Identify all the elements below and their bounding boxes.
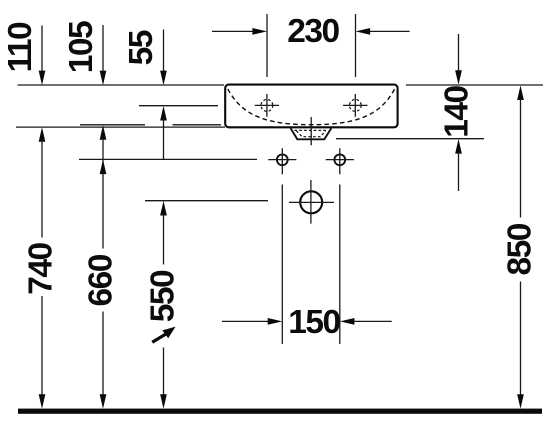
dimension 550 up arrow [160,201,167,216]
siphon cover trapezoid [291,128,332,139]
dimension 105 down arrow [100,71,107,86]
dimension 740 line lower part [41,296,43,396]
dimension 740 line upper part [41,140,43,238]
svg-text:150: 150 [288,304,340,341]
dimension 105/660 shared line [102,139,104,249]
left faucet hole dashed circle [261,100,273,112]
dimension 150 right arrow line [353,320,392,322]
dimension 230 left arrow line [212,30,254,32]
washbasin body outline [225,85,397,128]
right faucet hole dashed circle [349,100,361,112]
660-level reference line (mounting holes) [79,158,257,160]
left mounting hole crosshair [268,148,296,174]
svg-text:550: 550 [145,270,182,322]
dimension 740 up arrow [39,127,46,142]
140-level reference line [336,138,484,140]
dimension 140 up arrow [455,139,462,154]
rim reference line left segment [18,84,225,86]
dimension 55 lower tail [163,119,165,159]
dimension 55 down arrow [160,71,167,86]
dimension 850 line upper part [520,99,522,218]
left faucet hole crosshair [255,94,279,117]
dimension 150 left arrow line [222,320,269,322]
right faucet hole crosshair [343,94,367,117]
washbasin inner bowl dashed curve [228,89,395,125]
dimension 660 up arrow [100,160,107,175]
svg-text:140: 140 [439,85,476,137]
drain centerline lower segment [310,180,312,224]
dimension 140 down arrow [455,70,462,85]
svg-text:660: 660 [83,254,120,306]
dimension 660 floor arrow [100,394,107,409]
dimension 550 upper tail [163,214,165,265]
dimension 230 left extension line [266,14,268,77]
dimension 660 line lower part [102,312,104,396]
right mounting hole crosshair [326,148,354,174]
110-level reference line (basin bottom extension) [16,126,225,128]
floor line [18,409,542,414]
dimension 850 floor arrow [517,394,524,409]
dimension 150 right extension line [339,185,341,345]
adjustable height arrow symbol [152,327,175,343]
siphon inner dashed detail [295,130,328,136]
drain crosshair horizontal [289,201,334,203]
dimension 140 upper extension line [458,34,460,71]
dimension 550 floor arrow [160,394,167,409]
dimension 55 up arrow [160,106,167,121]
dimension 110 down arrow [39,71,46,86]
dimension 110 upper extension line [41,26,43,72]
105-level reference line segment a [80,124,145,126]
dimension 140 lower tail [458,153,460,192]
left mounting hole [277,154,288,165]
dimension 230 right extension line [355,14,357,77]
dimension 55 upper extension line [163,30,165,72]
55-level reference line (faucet hole axis) [139,105,218,107]
rim reference line right segment [406,84,543,86]
550-level reference line (drain) [145,200,268,202]
svg-text:105: 105 [63,21,100,73]
dimension 850 up arrow [517,85,524,100]
drain centerline upper segment [310,117,312,145]
svg-text:230: 230 [287,13,339,50]
dimension 105 up arrow [100,125,107,140]
105-level reference line segment b [173,124,222,126]
dimension 740 floor arrow [39,394,46,409]
svg-text:110: 110 [2,22,39,72]
dimension 105 upper extension line [102,25,104,71]
svg-text:850: 850 [502,223,539,275]
svg-text:740: 740 [22,242,59,294]
dimension 230 right arrow line [369,30,410,32]
right mounting hole [334,154,345,165]
svg-text:55: 55 [123,30,160,65]
dimension 150 left extension line [281,185,283,345]
drain hole circle [300,191,322,213]
dimension 850 line lower part [520,282,522,396]
dimension 550 line lower part [163,348,165,396]
